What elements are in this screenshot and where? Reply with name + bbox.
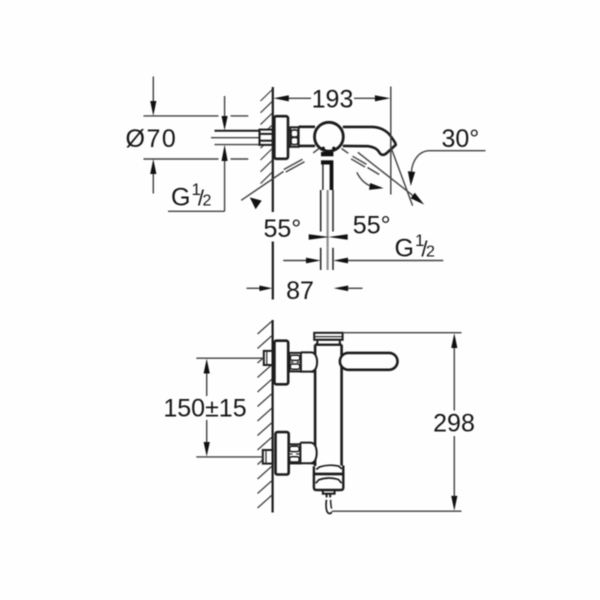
union nut behind wall (upper view) xyxy=(260,130,273,145)
faucet body tube (upper view) xyxy=(299,127,373,146)
svg-text:55°: 55° xyxy=(264,215,302,243)
UPPER VIEW GROUP xyxy=(126,77,486,306)
lower hex nut (lower view) xyxy=(289,444,301,463)
wall hatching (upper) xyxy=(261,90,272,184)
55-degree dashed swing line (left) xyxy=(241,148,319,200)
escutcheon (upper view) xyxy=(274,116,288,159)
knob stem xyxy=(326,494,328,498)
lever width arrows xyxy=(309,234,330,240)
dimension 298: dim line and arrows xyxy=(451,333,457,511)
supply pipe behind wall (upper view) xyxy=(211,130,260,145)
wall line (upper) xyxy=(272,87,274,212)
arc arrowhead left 55 xyxy=(250,197,262,209)
wall line (lower) xyxy=(272,320,274,513)
neck under cap xyxy=(317,340,339,345)
dimension O70: extension lines xyxy=(144,116,249,159)
neck between escutcheon and nut xyxy=(288,130,291,132)
svg-text:55°: 55° xyxy=(353,212,391,240)
svg-text:298: 298 xyxy=(433,410,475,438)
top cap (lower view) xyxy=(314,333,342,340)
svg-text:193: 193 xyxy=(312,86,354,114)
svg-text:Ø70: Ø70 xyxy=(126,125,178,153)
arc arrow right 55 xyxy=(357,172,373,186)
dimension G1/2 lever (line to label) xyxy=(283,258,443,264)
svg-text:30°: 30° xyxy=(442,125,480,153)
svg-text:150±15: 150±15 xyxy=(163,395,246,423)
upper escutcheon (lower view) xyxy=(274,341,288,385)
dimension 150: extension lines xyxy=(196,357,263,359)
svg-text:G1/2: G1/2 xyxy=(395,231,436,263)
dimension 150: dim line and arrows xyxy=(204,359,210,457)
lever shaft (upper view, pointing down) xyxy=(321,152,334,270)
55-degree dashed swing line (right) xyxy=(342,149,380,175)
bottom housing (lower view) xyxy=(314,465,343,490)
lower escutcheon (lower view) xyxy=(276,432,289,474)
water drip hook xyxy=(326,500,332,514)
diverter pull knob xyxy=(323,490,335,493)
wall hatching (lower) xyxy=(258,322,272,509)
dimension 193: dimension line and arrows xyxy=(274,95,391,101)
indicator dots on ball xyxy=(322,147,325,150)
dimension 298: extension lines xyxy=(343,332,462,334)
upper hex nut (lower view) xyxy=(289,353,301,372)
dimension 87 xyxy=(247,286,363,292)
dimension G1/2 supply: arrows xyxy=(168,96,228,211)
lever handle capsule (lower view) xyxy=(340,353,398,370)
spout (upper view) xyxy=(368,127,396,155)
upper inlet nipple behind wall xyxy=(264,351,273,365)
svg-text:G1/2: G1/2 xyxy=(171,180,212,212)
svg-text:87: 87 xyxy=(286,277,314,305)
30-degree flow line with arrow xyxy=(358,152,414,196)
upper check valve housing (lower view) xyxy=(301,352,317,371)
dimension O70: arrows xyxy=(150,77,156,194)
30-degree reference line xyxy=(391,147,413,205)
dimension 193: extension line right xyxy=(390,87,392,195)
lower check valve housing (lower view) xyxy=(300,443,316,464)
LOWER VIEW GROUP xyxy=(163,320,474,514)
cartridge ball (upper view) xyxy=(315,122,344,151)
lower inlet nipple behind wall xyxy=(263,450,273,464)
union nut (upper view) xyxy=(290,127,298,147)
faucet body (lower view) xyxy=(315,345,342,466)
